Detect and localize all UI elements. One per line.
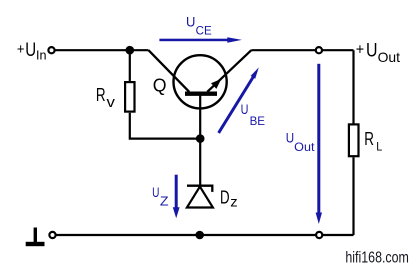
svg-text:R: R <box>96 85 106 105</box>
svg-text:U: U <box>366 40 378 62</box>
wire: Rv bottom to node B (down then right) <box>130 113 200 139</box>
label RL <box>364 129 383 154</box>
wire: right side down to RL <box>352 50 354 124</box>
wire: emitter to output terminal (top right horizontal) <box>251 49 353 51</box>
wire: collector lead (diagonal from node A wire to base bar) <box>149 50 190 92</box>
label U_Z <box>152 185 169 209</box>
label Dz <box>220 187 238 209</box>
svg-text:D: D <box>220 187 230 207</box>
svg-text:Q: Q <box>153 76 167 96</box>
svg-text:+: + <box>356 42 364 59</box>
svg-text:z: z <box>230 195 238 210</box>
zener diode Dz cathode bar with bent end <box>187 186 212 192</box>
terminal ground-left (open circle) <box>49 232 55 238</box>
wire: bottom rail (ground rail) <box>55 234 354 236</box>
wire: emitter lead (diagonal up-right) <box>207 50 251 92</box>
terminal +Uout (open circle) <box>316 47 322 53</box>
transistor Q base bar <box>185 92 217 96</box>
svg-text:U: U <box>241 102 249 117</box>
label Rv <box>96 85 116 111</box>
svg-text:v: v <box>107 94 116 111</box>
svg-text:U: U <box>25 40 36 61</box>
arrow U_BE (blue, diagonal up-right) <box>219 67 259 132</box>
svg-text:L: L <box>376 141 383 153</box>
label U_Out blue <box>286 130 315 154</box>
svg-text:U: U <box>186 14 195 30</box>
svg-text:Out: Out <box>294 140 315 154</box>
wire: RL bottom to bottom rail <box>352 157 354 235</box>
wire: input terminal to node A (top left horizontal) <box>54 49 149 51</box>
svg-text:Z: Z <box>160 194 169 209</box>
svg-text:hifi168.com: hifi168.com <box>345 249 409 266</box>
arrow U_Z (blue, vertical down, left of zener) <box>173 175 180 219</box>
terminal ground-right (open circle) <box>316 232 322 238</box>
svg-text:R: R <box>364 129 374 149</box>
svg-text:U: U <box>286 130 294 146</box>
transistor Q base lead down to zener <box>199 94 201 186</box>
ground symbol <box>26 228 45 247</box>
emitter arrowhead of Q <box>211 79 221 89</box>
node C junction dot (zener anode on rail) <box>195 231 204 240</box>
arrow U_CE (blue, horizontal, over transistor) <box>159 37 242 43</box>
svg-text:Out: Out <box>378 49 400 65</box>
svg-text:U: U <box>152 185 159 200</box>
svg-text:BE: BE <box>250 116 266 128</box>
label +Uout <box>356 40 400 65</box>
wire: node A down to Rv top <box>129 50 131 82</box>
label +Uin <box>17 40 47 63</box>
svg-text:In: In <box>36 49 47 63</box>
arrow U_Out (blue, vertical down, output voltage) <box>316 64 322 224</box>
node B junction dot (base/zener node) <box>196 134 205 143</box>
terminal +Uin (open circle) <box>48 47 54 53</box>
svg-text:+: + <box>17 41 25 58</box>
resistor Rv <box>125 82 134 112</box>
zener diode Dz triangle (anode) <box>187 187 213 208</box>
node A junction dot <box>126 46 135 55</box>
label U_CE <box>186 14 212 38</box>
svg-text:CE: CE <box>196 25 212 37</box>
transistor Q (circle) <box>174 55 227 108</box>
resistor RL <box>349 124 359 156</box>
label U_BE <box>241 102 266 128</box>
